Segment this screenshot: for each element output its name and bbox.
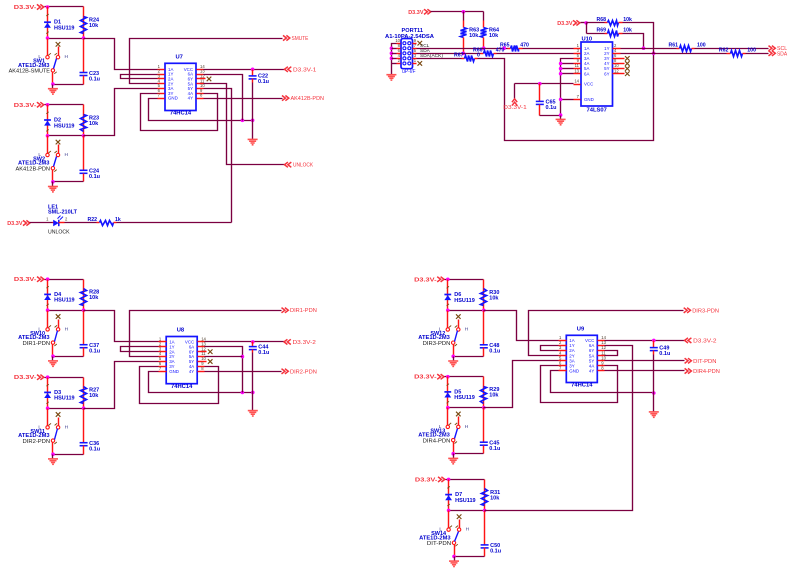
svg-text:10k: 10k xyxy=(469,33,479,39)
svg-text:14: 14 xyxy=(574,79,579,84)
svg-text:10k: 10k xyxy=(89,393,99,399)
op-amp U8 74HC14 hex inverter xyxy=(159,328,207,390)
svg-text:H: H xyxy=(465,424,469,430)
wire power rail SW10 xyxy=(45,277,84,281)
svg-text:D3.3V-: D3.3V- xyxy=(14,5,37,11)
svg-text:R69: R69 xyxy=(596,27,606,33)
resistor R23 10k xyxy=(81,105,100,136)
capacitor C65 0.1u xyxy=(536,84,557,116)
svg-text:U7: U7 xyxy=(176,55,183,61)
svg-text:AK412B-SMUTE: AK412B-SMUTE xyxy=(9,69,51,75)
svg-text:100: 100 xyxy=(747,47,756,53)
svg-text:H: H xyxy=(466,527,470,533)
power D3.3V- for SW14 xyxy=(415,477,445,484)
svg-text:GND: GND xyxy=(168,96,178,101)
svg-text:D3.3V: D3.3V xyxy=(7,221,23,227)
ground SW11 xyxy=(48,455,58,465)
wire R68 to 2Y net xyxy=(623,23,654,54)
diode D7 HSU119 xyxy=(445,480,475,511)
switch SW1 ATE1D-2M3 xyxy=(9,39,69,85)
wire SDA(ACK) row PORT11 to R67 xyxy=(417,58,462,60)
svg-text:UNLOCK: UNLOCK xyxy=(48,230,70,236)
svg-text:D3.3V-: D3.3V- xyxy=(414,375,437,381)
svg-text:D3.3V-: D3.3V- xyxy=(14,277,37,283)
power D3.3V rail U10 pullups xyxy=(557,20,588,27)
resistor R63 10k xyxy=(461,12,480,56)
wire SW11 junction to U8 pin 3A xyxy=(84,362,159,409)
svg-text:0.1u: 0.1u xyxy=(89,76,100,82)
node junction SCL at R65 xyxy=(502,46,506,50)
capacitor C36 0.1u xyxy=(80,409,101,455)
svg-text:6Y: 6Y xyxy=(604,71,609,76)
node DIR1-PDN output port xyxy=(282,308,317,315)
svg-text:D3.3V-: D3.3V- xyxy=(14,375,37,381)
no-connect U10 4Y xyxy=(621,61,630,66)
op-amp U7 74HC14 hex inverter xyxy=(158,55,206,117)
power D3.3V rail PORT11 xyxy=(408,9,483,16)
svg-text:UNLOCK: UNLOCK xyxy=(293,163,313,169)
wire R66 to U10 2A xyxy=(497,53,574,55)
ground SW13 xyxy=(448,454,458,464)
svg-text:HSU119: HSU119 xyxy=(54,396,75,402)
svg-text:0.1u: 0.1u xyxy=(258,79,269,85)
ground SW10 xyxy=(48,357,58,367)
wire U8 6A to ground rail xyxy=(205,347,245,393)
wire U7 5Y to LED xyxy=(204,89,232,223)
wire R69 to 1Y net xyxy=(623,34,646,51)
wire U9 GND to ground rail xyxy=(551,371,656,395)
resistor R61 100 xyxy=(668,42,705,51)
node SDA(ACK) net label xyxy=(420,53,443,59)
wire SDA row PORT11 to R66 xyxy=(417,53,481,55)
wire power rail SW13 xyxy=(445,375,484,379)
wire junction row SW11 xyxy=(46,406,86,410)
svg-text:HSU119: HSU119 xyxy=(454,298,475,304)
capacitor C23 0.1u xyxy=(80,39,101,85)
ground U7 C22 xyxy=(248,121,258,145)
svg-text:R62: R62 xyxy=(719,47,729,53)
node DIR4-PDN output port xyxy=(685,368,720,375)
resistor R64 10k xyxy=(481,12,501,51)
resistor R69 10k xyxy=(587,23,632,37)
connector PORT11 A1-10PA-2.54DSA xyxy=(385,28,434,75)
svg-text:D3.3V-2: D3.3V-2 xyxy=(693,338,716,344)
no-connect PORT11 pin 1 xyxy=(418,61,423,66)
wire U7 6A to ground rail xyxy=(204,75,243,121)
svg-text:D3.3V-: D3.3V- xyxy=(14,103,37,109)
wire U8 3Y to 4A loop xyxy=(140,367,219,404)
svg-text:AK412B-PDN: AK412B-PDN xyxy=(291,96,325,102)
no-connect U8 5Y xyxy=(205,359,213,364)
wire U9 1Y to 2A loop xyxy=(541,346,559,351)
svg-text:4Y: 4Y xyxy=(189,369,194,374)
resistor R31 10k xyxy=(482,480,501,511)
wire SW2 junction to U7 pin 3A xyxy=(84,89,158,136)
power D3.3V- for SW10 xyxy=(14,277,44,284)
diode D4 HSU119 xyxy=(44,280,74,311)
wire power rail SW12 xyxy=(445,278,484,282)
wire switch common to cap bottom SW2 xyxy=(51,180,83,184)
wire power rail SW2 xyxy=(45,103,84,107)
wire U10 unused inputs tie xyxy=(559,59,574,116)
svg-text:0.1u: 0.1u xyxy=(659,351,670,357)
wire R22 to U7 5Y net xyxy=(117,222,232,224)
resistor R27 10k xyxy=(81,378,100,409)
wire junction row SW14 xyxy=(447,509,487,513)
svg-text:0.1u: 0.1u xyxy=(258,350,269,356)
node AK412B-PDN output port xyxy=(282,96,324,103)
svg-text:6A: 6A xyxy=(584,71,589,76)
no-connect U7 6Y xyxy=(204,77,212,82)
no-connect PORT11 pin 9 xyxy=(418,41,423,46)
power D3.3V-1 arrow U10 xyxy=(503,99,526,111)
wire U7 VCC to D3.3V-1 xyxy=(204,68,285,72)
svg-text:SMUTE: SMUTE xyxy=(292,36,309,42)
svg-text:470: 470 xyxy=(496,47,505,53)
wire U8 2Y to DIR1-PDN xyxy=(130,311,282,357)
svg-text:10k: 10k xyxy=(489,393,499,399)
ground U10 xyxy=(556,116,566,125)
svg-text:D3.3V: D3.3V xyxy=(408,10,424,16)
wire R62 to SDA port xyxy=(746,53,769,55)
wire power rail SW14 xyxy=(446,478,485,482)
wire U10 GND pin xyxy=(559,98,574,102)
svg-text:D3.3V-: D3.3V- xyxy=(415,477,438,483)
diode D1 HSU119 xyxy=(44,7,74,39)
node SDA output port xyxy=(769,51,788,58)
wire U7 4Y to AK412B-PDN port xyxy=(204,98,283,100)
svg-text:HSU119: HSU119 xyxy=(54,298,75,304)
svg-text:74LS07: 74LS07 xyxy=(587,107,607,113)
svg-text:10k: 10k xyxy=(89,295,99,301)
node DIR2-PDN output port xyxy=(282,369,317,376)
capacitor C44 0.1u xyxy=(249,342,270,393)
svg-text:H: H xyxy=(65,54,69,60)
resistor R22 1k xyxy=(65,217,121,226)
capacitor C37 0.1u xyxy=(80,311,101,357)
svg-text:H: H xyxy=(65,152,69,158)
wire SW13 junction to U9 pin 3A xyxy=(484,361,559,408)
op-amp U10 74LS07 hex buffer xyxy=(574,36,621,113)
capacitor C22 0.1u xyxy=(249,70,269,121)
node SDA net label xyxy=(420,48,431,54)
power D3.3V- for SW1 xyxy=(14,4,44,11)
ground U9 C49 xyxy=(649,393,659,418)
power D3.3V- for SW12 xyxy=(414,277,444,284)
svg-text:D3.3V: D3.3V xyxy=(557,21,573,27)
wire SW1 junction to U7 pin 1A xyxy=(84,39,158,70)
node DIT-PDN output port xyxy=(685,358,717,365)
wire U8 VCC to D3.3V-2 xyxy=(205,340,285,344)
svg-text:HSU119: HSU119 xyxy=(455,498,476,504)
wire U9 VCC to D3.3V-2 xyxy=(605,339,685,343)
diode D6 HSU119 xyxy=(444,280,474,311)
LED LE1 SML-210LT xyxy=(30,204,78,235)
svg-text:DIT-PDN: DIT-PDN xyxy=(693,359,716,365)
svg-text:DIR3-PDN: DIR3-PDN xyxy=(692,308,719,314)
svg-text:DIT-PDN: DIT-PDN xyxy=(427,541,451,547)
svg-text:D3.3V-2: D3.3V-2 xyxy=(293,340,316,346)
wire switch common to cap bottom SW14 xyxy=(452,555,484,559)
resistor R66 470 xyxy=(473,47,505,56)
wire U8 5A to ground rail xyxy=(205,356,243,358)
svg-text:U8: U8 xyxy=(177,328,185,334)
resistor R24 10k xyxy=(81,7,101,39)
wire U8 1Y to 2A loop xyxy=(121,347,159,352)
wire U9 5Y to DIT-PDN port xyxy=(605,360,685,362)
svg-text:GND: GND xyxy=(169,369,179,374)
svg-text:GND: GND xyxy=(584,97,594,102)
diode D5 HSU119 xyxy=(444,377,474,408)
resistor R29 10k xyxy=(481,377,500,408)
ground SW2 xyxy=(48,182,58,192)
svg-text:VCC: VCC xyxy=(584,82,593,87)
ground SW12 xyxy=(448,357,458,367)
svg-text:R67: R67 xyxy=(454,53,464,59)
svg-text:0.1u: 0.1u xyxy=(89,447,100,453)
svg-text:SDA: SDA xyxy=(777,51,787,57)
svg-text:DIR4-PDN: DIR4-PDN xyxy=(693,369,720,375)
switch SW14 ATE1D-2M3 xyxy=(419,511,470,557)
svg-text:12: 12 xyxy=(614,68,619,73)
capacitor C24 0.1u xyxy=(80,136,101,182)
svg-text:4Y: 4Y xyxy=(188,96,193,101)
svg-text:DIR4-PDN: DIR4-PDN xyxy=(423,438,451,444)
wire R61 to SCL port xyxy=(695,48,769,50)
capacitor C50 0.1u xyxy=(481,511,502,557)
svg-text:HSU119: HSU119 xyxy=(54,123,75,129)
svg-text:74HC14: 74HC14 xyxy=(171,384,193,390)
wire junction row SW2 xyxy=(46,134,86,138)
wire SCL row PORT11 to R65 xyxy=(417,48,508,50)
svg-text:DIR3-PDN: DIR3-PDN xyxy=(423,341,451,347)
svg-text:13: 13 xyxy=(574,68,579,73)
wire SW14 junction to U9 pin 6A xyxy=(485,346,633,511)
wire R65 to U10 1A xyxy=(523,48,574,50)
wire switch common to cap bottom SW1 xyxy=(51,82,83,86)
resistor R30 10k xyxy=(481,280,500,311)
node SCL net label xyxy=(420,43,430,49)
ground U8 C44 xyxy=(248,393,258,417)
svg-text:D3.3V-1: D3.3V-1 xyxy=(503,105,526,111)
wire SDA(ACK) loop to U10 2Y xyxy=(478,52,656,141)
wire junction row SW10 xyxy=(46,308,86,312)
no-connect U10 5Y xyxy=(621,66,630,71)
svg-text:4Y: 4Y xyxy=(589,369,594,374)
wire U10 VCC row xyxy=(515,82,574,99)
node D3.3V-2 input port U9 xyxy=(685,338,717,345)
node D3.3V-1 input port xyxy=(285,67,317,74)
diode D3 HSU119 xyxy=(44,378,74,409)
svg-text:U10: U10 xyxy=(582,36,593,42)
no-connect U8 6Y xyxy=(205,349,213,354)
ground SW14 xyxy=(449,557,459,567)
svg-text:HSU119: HSU119 xyxy=(54,26,75,32)
wire switch common to cap bottom SW11 xyxy=(51,452,83,456)
power D3.3V- for SW13 xyxy=(414,374,444,381)
wire U7 3Y to 4A loop xyxy=(141,94,218,131)
wire U9 6Y to 5A loop xyxy=(605,351,618,356)
svg-text:470: 470 xyxy=(520,42,529,48)
wire U10 1Y to SCL port xyxy=(621,48,677,50)
node UNLOCK input port xyxy=(285,162,314,169)
capacitor C48 0.1u xyxy=(480,311,501,357)
svg-text:10k: 10k xyxy=(89,23,99,29)
wire switch common to cap bottom SW13 xyxy=(451,452,483,456)
wire switch common to cap bottom SW10 xyxy=(51,354,83,358)
node DIR3-PDN output port xyxy=(684,308,719,315)
svg-text:H: H xyxy=(65,424,69,430)
svg-text:0.1u: 0.1u xyxy=(89,174,100,180)
svg-text:0.1u: 0.1u xyxy=(546,105,557,111)
svg-text:0.1u: 0.1u xyxy=(89,349,100,355)
switch SW11 ATE1D-2M3 xyxy=(18,409,69,455)
capacitor C45 0.1u xyxy=(480,408,501,454)
wire U8 GND to ground rail xyxy=(149,372,255,395)
svg-text:10k: 10k xyxy=(89,121,99,127)
power D3.3V for LE1 xyxy=(7,220,30,227)
svg-text:R68: R68 xyxy=(596,17,606,23)
wire SW12 junction to U9 pin 1A xyxy=(484,311,559,341)
capacitor C49 0.1u xyxy=(650,341,671,393)
switch SW10 ATE1D-2M3 xyxy=(18,311,69,357)
ground PORT11 xyxy=(386,75,396,80)
svg-text:DIR1-PDN: DIR1-PDN xyxy=(23,341,51,347)
wire switch common to cap bottom SW12 xyxy=(451,355,483,359)
node D3.3V-2 input port U8 xyxy=(284,339,316,346)
wire U9 3Y to 4A loop xyxy=(541,366,618,403)
node SCL output port xyxy=(769,46,788,53)
wire U8 4Y to DIR2-PDN port xyxy=(205,371,282,373)
wire junction row SW12 xyxy=(446,309,486,313)
svg-text:0.1u: 0.1u xyxy=(489,349,500,355)
op-amp U9 74HC14 hex inverter xyxy=(559,327,607,389)
svg-text:H: H xyxy=(465,327,469,333)
svg-text:74HC14: 74HC14 xyxy=(170,111,192,117)
svg-text:HSU119: HSU119 xyxy=(454,395,475,401)
resistor R65 470 xyxy=(500,42,529,51)
svg-text:0: 0 xyxy=(477,53,480,59)
svg-text:A1-10PA-2.54DSA: A1-10PA-2.54DSA xyxy=(385,34,434,40)
svg-text:10k: 10k xyxy=(489,295,499,301)
svg-text:10k: 10k xyxy=(490,495,500,501)
svg-text:0.1u: 0.1u xyxy=(490,549,501,555)
svg-text:uP-I/F: uP-I/F xyxy=(402,69,416,75)
wire SW10 junction to U8 pin 1A xyxy=(84,311,159,342)
wire U10 2Y to R62 xyxy=(621,53,727,55)
ground SW1 xyxy=(48,85,58,95)
switch SW2 ATE1D-2M3 xyxy=(16,136,69,182)
wire junction row SW13 xyxy=(446,406,486,410)
wire junction row SW1 xyxy=(46,36,86,40)
wire U10 ground rail xyxy=(540,113,563,117)
svg-text:SML-210LT: SML-210LT xyxy=(48,210,78,216)
wire U9 2Y to DIR3-PDN xyxy=(529,311,684,356)
svg-text:100: 100 xyxy=(697,42,706,48)
svg-text:U9: U9 xyxy=(577,327,585,333)
wire power rail SW1 xyxy=(45,5,84,9)
svg-text:10k: 10k xyxy=(489,33,499,39)
power D3.3V- for SW2 xyxy=(14,102,44,109)
svg-text:DIR2-PDN: DIR2-PDN xyxy=(290,369,317,375)
svg-text:AK412B-PDN: AK412B-PDN xyxy=(16,166,51,172)
svg-text:DIR1-PDN: DIR1-PDN xyxy=(290,308,317,314)
svg-text:D3.3V-: D3.3V- xyxy=(414,277,437,283)
wire U7 2Y to SMUTE xyxy=(130,39,283,84)
power D3.3V- for SW11 xyxy=(14,375,44,382)
svg-text:74HC14: 74HC14 xyxy=(571,383,593,389)
switch SW12 ATE1D-2M3 xyxy=(418,311,469,357)
svg-text:DIR2-PDN: DIR2-PDN xyxy=(23,439,51,445)
svg-text:H: H xyxy=(65,326,69,332)
resistor R28 10k xyxy=(81,280,100,311)
wire U9 4Y to DIR4-PDN port xyxy=(605,370,685,372)
resistor R68 10k xyxy=(587,17,632,26)
resistor R62 100 xyxy=(719,47,756,56)
wire U7 GND to ground rail xyxy=(149,99,255,123)
resistor R67 0 xyxy=(454,53,480,62)
svg-text:R22: R22 xyxy=(87,217,97,223)
svg-text:D3.3V-1: D3.3V-1 xyxy=(293,67,316,73)
svg-text:GND: GND xyxy=(569,369,579,374)
wire U7 1Y to 2A loop xyxy=(121,75,158,79)
wire power rail SW11 xyxy=(45,375,84,379)
svg-text:R61: R61 xyxy=(668,42,678,48)
wire PORT11 left pins to ground xyxy=(390,44,397,75)
node SMUTE output port xyxy=(283,35,308,42)
wire UNLOCK to U7 5A xyxy=(204,84,285,165)
no-connect U10 3Y xyxy=(621,56,630,61)
switch SW13 ATE1D-2M3 xyxy=(418,408,469,454)
no-connect U10 6Y xyxy=(621,71,630,76)
svg-text:0.1u: 0.1u xyxy=(489,446,500,452)
diode D2 HSU119 xyxy=(44,105,74,136)
svg-text:10k: 10k xyxy=(623,27,632,33)
